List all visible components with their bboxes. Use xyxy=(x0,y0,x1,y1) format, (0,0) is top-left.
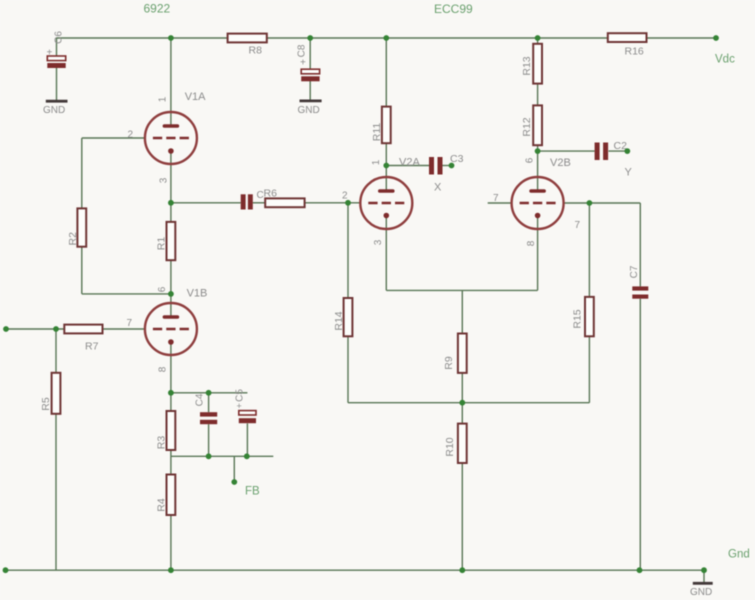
wire C8 top drop xyxy=(309,38,311,69)
wire cathode bus xyxy=(386,289,537,291)
wire tail connector xyxy=(348,402,589,404)
svg-text:+: + xyxy=(237,401,242,411)
svg-text:R5: R5 xyxy=(40,397,52,411)
wire cathode branch xyxy=(171,392,248,394)
wire GND stub bottom right xyxy=(703,570,705,582)
resistor R13 xyxy=(521,44,542,84)
svg-text:R4: R4 xyxy=(156,498,168,512)
svg-text:C7: C7 xyxy=(629,265,640,278)
resistor R4 xyxy=(156,475,176,516)
svg-text:R1: R1 xyxy=(156,237,168,251)
svg-text:Gnd: Gnd xyxy=(728,549,750,561)
svg-text:V1A: V1A xyxy=(185,91,206,103)
junction R10 / bottom rail xyxy=(459,567,465,573)
wire C6 to ground xyxy=(56,68,58,100)
svg-text:V2A: V2A xyxy=(399,157,420,169)
wire R6 to V2A grid xyxy=(305,202,361,204)
triode V2B xyxy=(512,177,564,229)
resistor R5 xyxy=(40,373,60,414)
triode V1B xyxy=(145,303,197,355)
svg-text:V2B: V2B xyxy=(550,157,571,169)
wire C4 drop xyxy=(208,393,210,412)
svg-text:8: 8 xyxy=(158,366,169,372)
svg-text:C6: C6 xyxy=(54,31,65,44)
svg-text:R16: R16 xyxy=(625,46,644,58)
wire R9 R10 column xyxy=(461,290,463,570)
svg-text:+: + xyxy=(300,58,306,69)
svg-text:Vdc: Vdc xyxy=(715,54,735,66)
resistor R15 xyxy=(572,297,594,336)
wire V2B grid stub xyxy=(488,202,512,204)
wire lower branch xyxy=(171,455,273,457)
wire R2 column xyxy=(81,138,83,294)
resistor R1 xyxy=(156,222,176,260)
wire V2B cathode xyxy=(537,216,539,291)
triode V1A xyxy=(145,112,197,164)
wire C7 top xyxy=(639,203,641,286)
svg-text:R12: R12 xyxy=(521,117,533,136)
junction V1A plate node xyxy=(168,200,174,206)
svg-text:GND: GND xyxy=(298,105,320,116)
junction C4 bottom xyxy=(206,453,212,459)
resistor R9 xyxy=(443,334,467,373)
junction V2B plate node xyxy=(587,200,593,206)
svg-text:R13: R13 xyxy=(521,56,533,75)
junction R9 R10 tail xyxy=(459,400,465,406)
svg-text:1: 1 xyxy=(371,159,382,165)
svg-text:R2: R2 xyxy=(67,232,79,246)
resistor R7 xyxy=(64,325,102,353)
wire V2A cathode xyxy=(385,216,387,291)
svg-text:V1B: V1B xyxy=(187,288,208,300)
node bottom rail left endpoint xyxy=(3,567,9,573)
capacitor C4 xyxy=(195,393,218,424)
junction V1A anode / rail xyxy=(168,35,174,41)
wire node to coupling cap xyxy=(171,202,241,204)
wire V1A grid xyxy=(82,137,146,139)
node FB endpoint xyxy=(231,479,237,485)
svg-text:X: X xyxy=(434,182,442,194)
wire V1A anode xyxy=(170,38,172,127)
node Y endpoint xyxy=(624,148,630,154)
svg-text:C4: C4 xyxy=(195,393,206,406)
wire FB stub xyxy=(233,456,235,482)
junction R13 / rail xyxy=(535,35,541,41)
svg-text:C8: C8 xyxy=(297,44,308,57)
svg-text:8: 8 xyxy=(526,240,537,246)
wire R5 column xyxy=(55,329,57,570)
junction V2A anode xyxy=(383,163,389,169)
wire C7 bottom xyxy=(639,299,641,571)
wire Vdc top rail xyxy=(57,37,717,39)
resistor R16 xyxy=(608,33,647,57)
svg-text:GND: GND xyxy=(690,587,712,598)
node input endpoint xyxy=(3,326,9,332)
resistor R6 xyxy=(264,188,305,208)
wire R14 column xyxy=(347,203,349,403)
junction V1B cathode node xyxy=(168,390,174,396)
coupling capacitor C1 xyxy=(241,190,264,210)
svg-text:3: 3 xyxy=(373,239,384,245)
junction V2B anode xyxy=(535,148,541,154)
wire C5 bottom xyxy=(246,423,248,456)
svg-text:GND: GND xyxy=(43,105,65,116)
junction V2A grid node xyxy=(345,200,351,206)
ground symbol GND (bottom right) xyxy=(690,583,713,598)
svg-text:R8: R8 xyxy=(249,45,263,57)
capacitor C8 xyxy=(297,44,320,81)
svg-text:R7: R7 xyxy=(85,341,99,353)
svg-text:R15: R15 xyxy=(572,309,584,328)
svg-text:R10: R10 xyxy=(444,437,456,456)
svg-text:R3: R3 xyxy=(156,436,168,450)
junction C7 / bottom rail xyxy=(637,567,643,573)
resistor R3 xyxy=(156,411,176,450)
wire R15 column xyxy=(588,203,590,403)
node X endpoint xyxy=(449,163,455,169)
node Vdc endpoint xyxy=(713,35,719,41)
svg-text:+: + xyxy=(47,48,53,59)
capacitor C2 xyxy=(595,140,627,160)
wire V1B cathode column xyxy=(170,342,172,571)
wire C4 bottom xyxy=(208,424,210,456)
resistor R8 xyxy=(228,34,267,57)
ground symbol GND (under C6) xyxy=(43,101,68,116)
capacitor C7 xyxy=(629,265,648,299)
svg-text:1: 1 xyxy=(158,96,169,102)
junction C4 top xyxy=(206,390,212,396)
junction R4 / bottom rail xyxy=(168,567,174,573)
junction R5 / input xyxy=(53,326,59,332)
svg-text:2: 2 xyxy=(342,191,348,202)
svg-text:R11: R11 xyxy=(371,123,383,142)
wire R1 column to V1B anode xyxy=(170,203,172,318)
resistor R10 xyxy=(444,424,467,463)
svg-text:6: 6 xyxy=(157,286,168,292)
resistor R14 xyxy=(333,298,352,336)
svg-text:R14: R14 xyxy=(333,311,345,330)
wire cap to R6 xyxy=(253,202,266,204)
resistor R12 xyxy=(521,105,542,145)
ground symbol GND (under C8) xyxy=(298,101,322,116)
wire R11 column xyxy=(385,38,387,192)
resistor R11 xyxy=(371,107,391,144)
svg-text:7: 7 xyxy=(127,318,133,329)
wire input row xyxy=(6,328,145,330)
wire Gnd bottom rail xyxy=(6,569,705,571)
svg-text:3: 3 xyxy=(159,177,170,183)
svg-text:6922: 6922 xyxy=(144,2,171,16)
wire V2A anode to C3 xyxy=(386,165,429,167)
junction C5 bottom xyxy=(244,453,250,459)
wire C6 top drop xyxy=(56,38,58,56)
svg-text:6: 6 xyxy=(525,157,536,163)
svg-text:ECC99: ECC99 xyxy=(434,2,473,16)
svg-text:7: 7 xyxy=(493,193,499,204)
triode V2A xyxy=(360,177,412,229)
wire C8 to ground xyxy=(309,81,311,100)
junction V1B grid node xyxy=(168,291,174,297)
svg-text:FB: FB xyxy=(245,486,260,498)
resistor R2 xyxy=(67,208,86,246)
svg-text:7: 7 xyxy=(575,220,581,231)
wire C3 to node X xyxy=(443,165,452,167)
svg-text:Y: Y xyxy=(625,167,633,179)
svg-text:C5: C5 xyxy=(235,389,246,402)
wire R2 to V1B grid node xyxy=(82,293,171,295)
capacitor C6 xyxy=(47,31,66,68)
junction C8 / rail xyxy=(307,35,313,41)
capacitor C3 xyxy=(429,153,464,175)
wire C2 to node Y xyxy=(609,150,628,152)
wire V2B plate right xyxy=(563,202,640,204)
wire R13 R12 column xyxy=(537,38,539,192)
svg-text:R9: R9 xyxy=(443,356,455,370)
capacitor C5 xyxy=(235,389,257,424)
node Gnd endpoint xyxy=(701,567,707,573)
wire V1A cathode xyxy=(170,151,172,203)
junction R11 / rail xyxy=(383,35,389,41)
wire V2B anode to C2 xyxy=(538,150,595,152)
svg-text:R6: R6 xyxy=(264,188,278,200)
svg-text:2: 2 xyxy=(128,130,134,141)
